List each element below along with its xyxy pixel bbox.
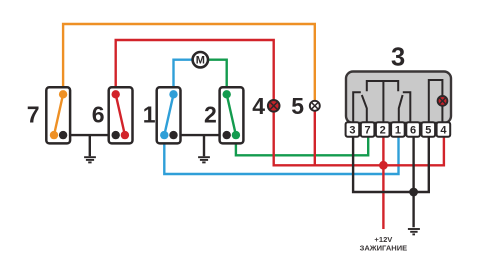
wire orange: switch 7 top to lamp 5 top <box>63 24 315 106</box>
wire blue: switch 1 bottom to pin 1 <box>164 135 398 174</box>
switch S6 thrown contact <box>121 131 129 139</box>
switch S1 thrown contact <box>160 131 168 139</box>
svg-text:3: 3 <box>349 125 355 137</box>
pin box 2 <box>376 122 390 137</box>
ground G3 <box>408 229 420 234</box>
relay internal arm pin 7 <box>362 95 367 123</box>
svg-text:6: 6 <box>410 125 416 137</box>
svg-text:5: 5 <box>425 125 431 137</box>
svg-text:3: 3 <box>391 43 405 71</box>
switch S2 common contact <box>223 131 231 139</box>
pin box 1 <box>391 122 405 137</box>
svg-text:1: 1 <box>395 125 401 137</box>
lamp L5 <box>310 101 320 111</box>
switch S2 top contact <box>223 90 231 98</box>
switch S1 arm <box>164 94 173 135</box>
svg-text:5: 5 <box>291 93 304 119</box>
pin box 3 <box>346 122 360 137</box>
switch S6 arm <box>116 94 125 135</box>
wire black: pin 3 and pin 5 to ground bus <box>353 137 429 192</box>
relay internal contact pin 6 <box>403 92 411 123</box>
wire red: pin 2 to +12V <box>382 137 384 229</box>
switch S7 top contact <box>59 90 67 98</box>
wire green: switch 2 bottom to pin 7 <box>236 135 368 155</box>
switch S2 box <box>220 87 244 143</box>
svg-text:4: 4 <box>440 125 447 137</box>
relay internal contact pin 3 <box>353 92 361 123</box>
pin box 6 <box>406 122 420 137</box>
motor M <box>193 52 208 67</box>
switch S7 box <box>46 87 70 143</box>
svg-text:4: 4 <box>252 93 265 119</box>
wire red: switch 6 top to lamp 4 top <box>116 40 274 106</box>
svg-text:6: 6 <box>92 101 105 127</box>
lamp L4 <box>268 100 280 112</box>
wire red: lamp 4 bottom, lamp 5 bottom, pin 4, junction bus <box>274 106 444 165</box>
pin box 5 <box>422 122 436 137</box>
svg-text:M: M <box>196 55 205 67</box>
switch S1 top contact <box>169 90 177 98</box>
ground G2 <box>198 135 210 162</box>
svg-text:7: 7 <box>365 125 371 137</box>
switch S6 box <box>109 87 133 143</box>
relay internal lamp branch pins 5-4 <box>429 80 443 123</box>
pin box 4 <box>437 122 451 137</box>
switch S1 box <box>157 87 181 143</box>
switch S6 common contact <box>112 131 120 139</box>
wire black: pin 6 down to ground <box>412 137 414 227</box>
relay internal T contact pin 2 <box>367 81 398 123</box>
junction black node <box>409 188 418 197</box>
switch S2 arm <box>227 94 236 135</box>
relay U3 body <box>346 72 451 124</box>
switch S7 arm <box>54 94 63 135</box>
pin box 7 <box>361 122 375 137</box>
switch S1 common contact <box>169 131 177 139</box>
switch S2 thrown contact <box>232 131 240 139</box>
svg-text:2: 2 <box>204 101 217 127</box>
wire black: switch 7 black to switch 6 black <box>63 134 116 136</box>
switch S7 common contact <box>59 131 67 139</box>
relay internal lamp <box>438 96 448 106</box>
svg-text:1: 1 <box>143 101 156 127</box>
svg-text:2: 2 <box>380 125 386 137</box>
relay internal arm pin 1 <box>399 95 403 123</box>
switch S7 thrown contact <box>50 131 58 139</box>
svg-text:ЗАЖИГАНИЕ: ЗАЖИГАНИЕ <box>360 243 408 252</box>
ground G1 <box>84 135 96 162</box>
junction red node <box>379 161 388 170</box>
wire green: motor M to switch 2 top <box>209 60 227 95</box>
wire black: switch 1 black to switch 2 black <box>174 134 227 136</box>
wire red: lamp 5 bottom drop <box>314 106 316 165</box>
wire blue: switch 1 top to motor M <box>174 60 193 95</box>
switch S6 top contact <box>112 90 120 98</box>
svg-text:7: 7 <box>27 101 40 127</box>
